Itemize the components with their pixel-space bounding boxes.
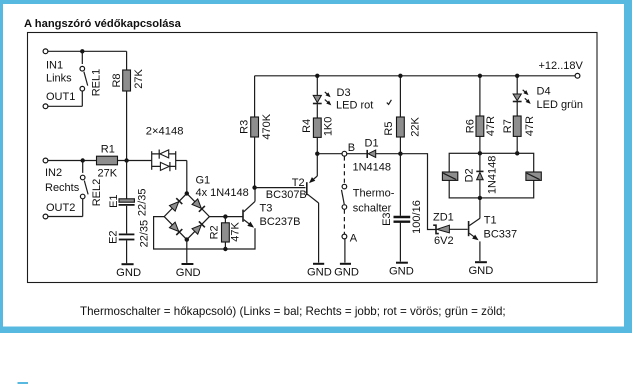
svg-text:OUT2: OUT2 — [46, 202, 75, 214]
svg-text:R2: R2 — [209, 225, 221, 239]
svg-text:T1: T1 — [484, 215, 497, 227]
svg-text:27K: 27K — [133, 69, 145, 89]
svg-text:GND: GND — [176, 267, 201, 279]
svg-text:GND: GND — [389, 265, 414, 277]
svg-text:47R: 47R — [524, 116, 536, 136]
svg-text:1N4148: 1N4148 — [487, 156, 499, 195]
svg-text:2×4148: 2×4148 — [146, 125, 184, 137]
svg-text:22K: 22K — [409, 117, 421, 137]
svg-text:BC307B: BC307B — [266, 189, 307, 201]
svg-text:E1: E1 — [108, 194, 120, 207]
svg-text:BC337: BC337 — [484, 229, 518, 241]
svg-text:R7: R7 — [502, 119, 514, 133]
svg-text:OUT1: OUT1 — [46, 91, 75, 103]
svg-text:D4: D4 — [537, 86, 551, 98]
svg-text:R5: R5 — [383, 122, 395, 136]
svg-text:E3: E3 — [381, 212, 393, 225]
svg-text:R4: R4 — [301, 119, 313, 133]
svg-text:27K: 27K — [98, 168, 118, 180]
svg-text:22/35: 22/35 — [138, 220, 150, 248]
svg-text:E2: E2 — [108, 230, 120, 243]
svg-text:T2: T2 — [292, 177, 305, 189]
svg-text:T3: T3 — [260, 203, 273, 215]
svg-text:IN1: IN1 — [46, 59, 63, 71]
svg-text:47K: 47K — [230, 222, 242, 242]
svg-text:R8: R8 — [111, 73, 123, 87]
svg-text:LED rot: LED rot — [336, 99, 373, 111]
svg-text:+12..18V: +12..18V — [539, 60, 584, 72]
svg-text:Thermoschalter = hőkapcsoló): Thermoschalter = hőkapcsoló) (Links = ba… — [80, 305, 506, 318]
svg-text:D3: D3 — [337, 87, 351, 99]
svg-text:REL2: REL2 — [91, 179, 103, 207]
svg-text:REL1: REL1 — [90, 69, 102, 97]
svg-text:GND: GND — [307, 266, 332, 278]
svg-text:GND: GND — [334, 266, 359, 278]
svg-text:G1: G1 — [196, 175, 211, 187]
svg-text:Links: Links — [46, 73, 72, 85]
svg-text:D1: D1 — [365, 138, 379, 150]
svg-text:1N4148: 1N4148 — [353, 162, 392, 174]
svg-text:GND: GND — [116, 267, 141, 279]
svg-text:IN2: IN2 — [45, 167, 62, 179]
svg-text:D2: D2 — [464, 168, 476, 182]
svg-text:GND: GND — [468, 265, 493, 277]
svg-text:A: A — [350, 232, 358, 244]
svg-text:BC237B: BC237B — [260, 216, 301, 228]
svg-text:100/16: 100/16 — [411, 200, 423, 234]
svg-text:R1: R1 — [101, 144, 115, 156]
svg-text:R3: R3 — [239, 120, 251, 134]
svg-text:22/35: 22/35 — [136, 189, 148, 217]
svg-text:LED grün: LED grün — [537, 99, 583, 111]
svg-text:4x 1N4148: 4x 1N4148 — [196, 187, 249, 199]
svg-text:470K: 470K — [261, 113, 273, 139]
svg-text:Rechts: Rechts — [45, 182, 80, 194]
svg-text:R6: R6 — [465, 119, 477, 133]
svg-text:A hangszóró védőkapcsolása: A hangszóró védőkapcsolása — [24, 18, 182, 30]
svg-text:Thermo-: Thermo- — [353, 187, 395, 199]
svg-text:ZD1: ZD1 — [433, 211, 454, 223]
svg-text:B: B — [348, 142, 355, 154]
svg-text:1K0: 1K0 — [323, 117, 335, 137]
svg-text:47R: 47R — [485, 116, 497, 136]
svg-text:6V2: 6V2 — [434, 235, 454, 247]
